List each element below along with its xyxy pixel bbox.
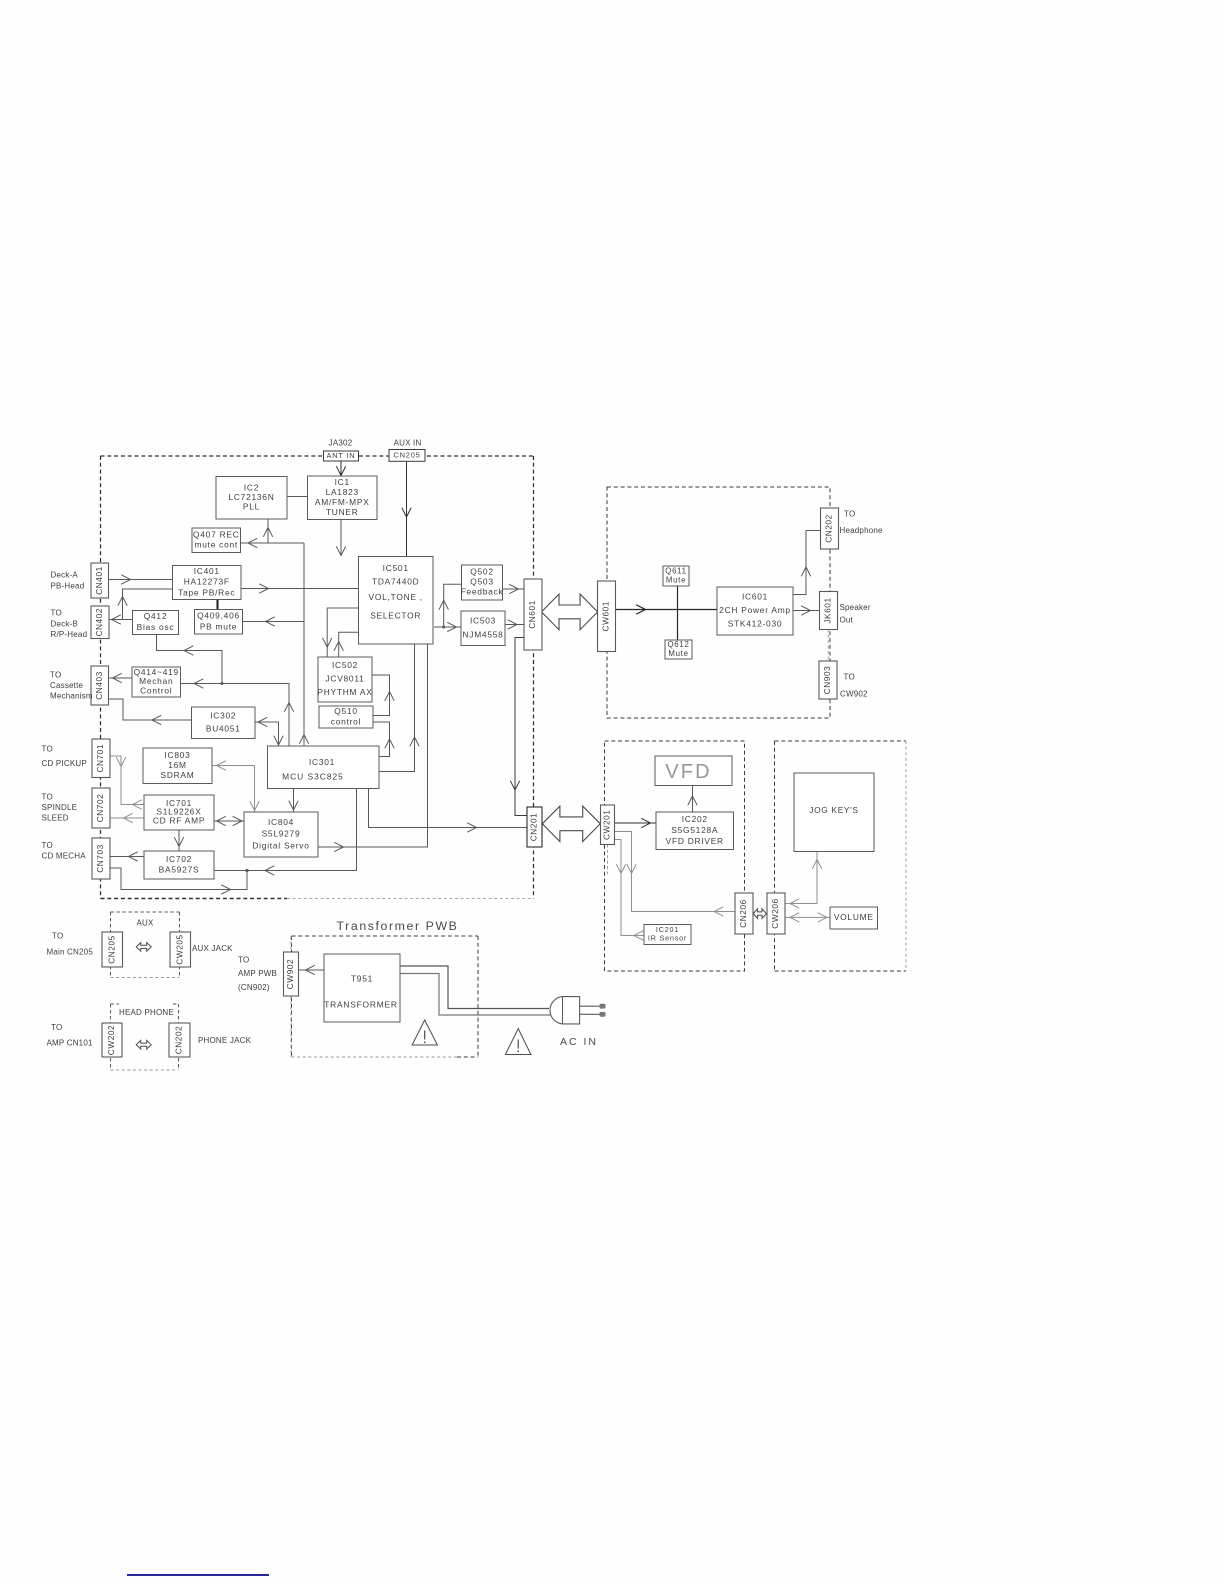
svg-text:IC804: IC804 — [268, 817, 294, 827]
wire IC601 to CN202 headphone — [793, 531, 821, 595]
svg-text:TO: TO — [50, 670, 61, 679]
wire IC502 to IC501 right stub — [339, 632, 359, 657]
connector CW205 aux jack — [170, 932, 191, 967]
svg-text:CN702: CN702 — [95, 794, 105, 823]
svg-text:STK412-030: STK412-030 — [728, 619, 783, 629]
svg-text:SLEED: SLEED — [42, 813, 69, 822]
JOG KEYS — [794, 773, 874, 852]
svg-text:CN402: CN402 — [94, 608, 104, 637]
svg-text:Mechanism: Mechanism — [50, 691, 93, 700]
svg-text:Q510: Q510 — [334, 706, 358, 716]
svg-text:CD RF AMP: CD RF AMP — [153, 816, 205, 826]
svg-text:S5G5128A: S5G5128A — [671, 825, 718, 835]
connector CW201 — [601, 805, 615, 845]
wire CW902 to T951 — [299, 969, 325, 971]
wire IC503 to CN601 — [505, 624, 524, 626]
wire CW201 to IC201 IR sensor — [615, 840, 645, 936]
svg-text:AUX: AUX — [137, 918, 155, 927]
svg-text:Q412: Q412 — [144, 611, 168, 621]
junction dot IC503 wire — [442, 626, 445, 629]
svg-text:IC2: IC2 — [244, 482, 259, 492]
svg-text:TO: TO — [42, 841, 53, 850]
wire IC302 to MCU — [255, 722, 279, 746]
svg-text:TO: TO — [844, 509, 855, 518]
svg-text:Mute: Mute — [668, 649, 688, 658]
connector CW902 — [284, 952, 299, 996]
VFD PWB dashed border — [605, 741, 745, 971]
svg-text:Speaker: Speaker — [840, 603, 871, 612]
svg-text:BU4051: BU4051 — [206, 724, 241, 734]
svg-text:CN403: CN403 — [94, 671, 104, 700]
Jog key PWB dashed border — [775, 740, 907, 742]
wire Q412 to mechan control node — [157, 635, 223, 684]
svg-text:(CN902): (CN902) — [238, 983, 270, 992]
svg-text:PHYTHM AX: PHYTHM AX — [317, 687, 372, 697]
wire branch up to IC2 — [267, 519, 269, 543]
IC301 MCU — [268, 746, 380, 789]
bus arrow CN201-CW201 — [542, 806, 600, 841]
connector CN206 — [735, 893, 753, 934]
svg-text:CN202: CN202 — [824, 514, 834, 543]
svg-text:Transformer PWB: Transformer PWB — [337, 919, 459, 933]
svg-text:NJM4558: NJM4558 — [462, 629, 503, 639]
Q502 Q503 feedback — [462, 565, 503, 600]
wire IC502 to Q510 control — [372, 675, 390, 716]
wire IC401 to bias junction — [123, 589, 173, 620]
connector CN205 aux jack — [102, 932, 123, 967]
warning triangle AC IN — [505, 1029, 531, 1055]
wire Q412 to CN402 — [109, 619, 133, 621]
wire IC401 to Q409 stub — [217, 600, 219, 610]
svg-text:JOG KEY'S: JOG KEY'S — [809, 805, 858, 815]
svg-text:SPINDLE: SPINDLE — [42, 803, 78, 812]
svg-text:TDA7440D: TDA7440D — [372, 577, 419, 587]
svg-text:Headphone: Headphone — [840, 526, 884, 535]
T951 transformer — [324, 954, 400, 1022]
wire Q502 to CN601 — [503, 588, 524, 590]
svg-text:CW902: CW902 — [840, 689, 868, 698]
svg-text:TO: TO — [52, 931, 63, 940]
wire volume to CW206 — [785, 916, 830, 918]
wire ANT IN to IC1 — [340, 461, 342, 476]
connector CN205 AUX IN — [389, 450, 425, 462]
wire CN702 to IC701 — [110, 817, 145, 819]
svg-text:CW201: CW201 — [602, 810, 612, 840]
wire AUX IN CN205 to IC501 — [406, 461, 408, 556]
Q414-419 mechan control — [132, 667, 181, 697]
wire IC701 to IC702 — [178, 830, 180, 851]
svg-text:TO: TO — [42, 744, 53, 753]
svg-text:Mute: Mute — [666, 576, 686, 585]
wire CN401 to IC401 — [109, 579, 173, 581]
wire CN403 to IC302 — [109, 699, 192, 720]
svg-text:Q409,406: Q409,406 — [197, 611, 240, 621]
wire branch to Q409 PB mute — [243, 621, 305, 623]
svg-text:Q612: Q612 — [667, 640, 689, 649]
svg-text:AMP CN101: AMP CN101 — [47, 1038, 93, 1047]
connector CW206 — [767, 893, 785, 934]
wire IC601 to JK601 speaker — [793, 610, 820, 612]
svg-text:AUX JACK: AUX JACK — [192, 944, 233, 953]
svg-text:AM/FM-MPX: AM/FM-MPX — [315, 497, 370, 507]
wire MCU control bus vertical to Q407/PB-mute — [303, 543, 305, 746]
connector stub below CW902 — [290, 996, 292, 1057]
connector CW202 phone — [102, 1023, 122, 1057]
connector CN903 — [819, 661, 837, 699]
IC202 VFD driver — [656, 812, 734, 850]
AUX dashed border — [111, 911, 180, 913]
svg-text:CN701: CN701 — [95, 744, 105, 773]
svg-text:R/P-Head: R/P-Head — [51, 630, 88, 639]
svg-text:Tape PB/Rec: Tape PB/Rec — [178, 587, 235, 597]
wire T951 to AC plug lower — [400, 974, 552, 1016]
wire branch up to Q502 feedback — [444, 584, 462, 627]
VOLUME — [830, 907, 878, 929]
IC502 rhythm — [318, 657, 372, 702]
svg-text:VOLUME: VOLUME — [834, 912, 874, 922]
svg-text:CN903: CN903 — [822, 666, 832, 695]
connector CN403 — [91, 666, 109, 705]
wire MCU to IC804 — [293, 789, 295, 813]
svg-text:TO: TO — [42, 792, 53, 801]
bus arrow CN205-CW205 aux — [136, 943, 151, 952]
svg-text:JK601: JK601 — [823, 597, 833, 623]
svg-text:IC503: IC503 — [470, 615, 496, 625]
wire MCU to IC702 — [214, 789, 357, 871]
wire T951 to AC plug upper — [400, 966, 549, 1009]
svg-text:IC702: IC702 — [166, 854, 192, 864]
IC804 digital servo — [244, 812, 318, 857]
svg-text:IR Sensor: IR Sensor — [648, 934, 687, 943]
wire CW601 to power amp — [616, 609, 718, 611]
svg-text:Q502: Q502 — [470, 567, 494, 577]
svg-text:CW205: CW205 — [174, 934, 184, 964]
svg-text:Q407 REC: Q407 REC — [193, 530, 240, 540]
svg-text:CW202: CW202 — [106, 1025, 116, 1055]
svg-text:Deck-B: Deck-B — [51, 619, 78, 628]
connector JA302 ANT IN — [324, 451, 359, 461]
connector stub above CW902 — [290, 936, 292, 952]
svg-text:Digital Servo: Digital Servo — [252, 840, 309, 850]
svg-text:IC202: IC202 — [682, 814, 708, 824]
svg-text:MCU S3C825: MCU S3C825 — [282, 772, 344, 782]
svg-text:TO: TO — [51, 1023, 62, 1032]
IC201 IR sensor — [644, 925, 691, 945]
svg-text:AC IN: AC IN — [560, 1036, 598, 1048]
connector CN202 amp — [821, 508, 839, 549]
wire CW201 to CN206 key scan — [615, 832, 736, 912]
junction dot IC702 line — [245, 869, 248, 872]
wire CN703 loop to junction — [110, 868, 247, 890]
warning triangle transformer — [412, 1020, 437, 1045]
svg-text:AMP PWB: AMP PWB — [238, 969, 277, 978]
Transformer PWB dashed border — [292, 935, 479, 937]
svg-text:SELECTOR: SELECTOR — [370, 611, 421, 621]
svg-text:TO: TO — [238, 955, 249, 964]
wire Q407 REC mute line — [241, 542, 305, 544]
Q612 mute — [665, 640, 692, 659]
connector CN202 phone — [169, 1023, 190, 1057]
svg-text:Control: Control — [140, 686, 172, 696]
svg-text:TO: TO — [844, 673, 855, 682]
IC701 CD RF amp — [144, 795, 214, 830]
IC2 PLL — [216, 477, 287, 520]
svg-text:BA5927S: BA5927S — [159, 864, 200, 874]
svg-text:VOL,TONE ,: VOL,TONE , — [369, 592, 423, 602]
svg-text:CN401: CN401 — [94, 566, 104, 595]
wire IC1 to IC501 selector — [340, 520, 342, 556]
svg-text:Q611: Q611 — [665, 567, 687, 576]
svg-text:Q503: Q503 — [470, 577, 494, 587]
svg-text:CN201: CN201 — [529, 813, 539, 842]
svg-text:Feedback: Feedback — [461, 587, 504, 597]
svg-text:mute cont: mute cont — [194, 539, 238, 549]
svg-text:JA302: JA302 — [329, 438, 353, 447]
svg-text:LC72136N: LC72136N — [228, 492, 274, 502]
svg-text:IC302: IC302 — [210, 710, 236, 720]
svg-text:S5L9279: S5L9279 — [262, 829, 301, 839]
connector CN703 — [92, 838, 110, 879]
AC plug prong upper — [580, 1005, 600, 1007]
wire MCU to CN201 — [369, 789, 528, 828]
connector CW601 — [598, 581, 616, 652]
Power Amp PWB dashed border — [607, 487, 830, 718]
svg-text:CD PICKUP: CD PICKUP — [42, 759, 87, 768]
svg-text:Main CN205: Main CN205 — [47, 947, 94, 956]
svg-text:IC1: IC1 — [335, 477, 350, 487]
connector JK601 — [820, 592, 838, 630]
wire jog keys to CW206 — [785, 852, 817, 904]
Q412 bias osc — [133, 611, 179, 635]
svg-text:ANT IN: ANT IN — [327, 451, 356, 460]
wire CW201 to IC202 — [615, 822, 657, 824]
connector stub below CW201 — [607, 845, 609, 875]
svg-text:16M: 16M — [168, 760, 187, 770]
footer blue rule — [127, 1574, 269, 1576]
connector CN601 — [524, 579, 542, 650]
Q409 406 PB mute — [195, 610, 243, 635]
svg-text:CN601: CN601 — [527, 600, 537, 629]
Q510 control — [319, 706, 373, 728]
svg-text:Out: Out — [840, 616, 854, 625]
IC302 BU4051 — [192, 707, 256, 739]
IC1 tuner — [308, 476, 378, 520]
svg-text:control: control — [331, 716, 361, 726]
svg-text:IC401: IC401 — [194, 566, 220, 576]
svg-text:CN206: CN206 — [738, 899, 748, 928]
wire CN601 down to CN201 — [515, 638, 527, 816]
wire IC202 to VFD — [692, 786, 694, 813]
junction dot Q412/mech — [221, 682, 224, 685]
svg-text:Cassette: Cassette — [50, 681, 84, 690]
svg-text:CN205: CN205 — [393, 450, 420, 459]
IC803 SDRAM — [143, 748, 212, 784]
wire IC803 to IC804 memory bus — [212, 766, 255, 813]
wire IC401 tape out to IC501 — [241, 588, 359, 590]
Q611 mute — [663, 566, 689, 586]
svg-text:T951: T951 — [351, 974, 373, 984]
svg-text:IC501: IC501 — [383, 563, 409, 573]
wire MCU to Q414 mechan control — [181, 684, 290, 747]
bus arrow CN601-CW601 — [542, 594, 598, 630]
svg-text:JCV8011: JCV8011 — [325, 674, 364, 684]
svg-text:HA12273F: HA12273F — [184, 577, 230, 587]
HEAD PHONE dashed border — [111, 1003, 120, 1005]
svg-text:CD MECHA: CD MECHA — [42, 851, 87, 860]
svg-text:IC803: IC803 — [164, 750, 190, 760]
svg-text:CW902: CW902 — [285, 959, 295, 989]
connector CN402 — [91, 606, 109, 639]
AC plug prong lower — [580, 1013, 600, 1015]
svg-text:CN202: CN202 — [174, 1026, 184, 1055]
VFD display — [655, 756, 732, 786]
wire IC501 to IC502 left stub — [327, 608, 358, 657]
bus arrow CW202-CN202 headphone — [136, 1040, 151, 1049]
svg-text:TRANSFORMER: TRANSFORMER — [324, 1000, 397, 1010]
svg-text:CW601: CW601 — [601, 601, 611, 631]
svg-text:HEAD PHONE: HEAD PHONE — [119, 1008, 174, 1017]
svg-text:TO: TO — [51, 609, 62, 618]
Main PWB dashed border — [100, 456, 102, 899]
wire IC804 CD signal to IC501 — [318, 644, 428, 847]
connector stub JK601 to CN903 — [827, 630, 829, 662]
wire CN701 to IC701 — [110, 756, 145, 805]
wire CN703 to IC702 — [110, 856, 144, 858]
svg-text:PLL: PLL — [243, 502, 260, 512]
svg-text:LA1823: LA1823 — [326, 487, 359, 497]
wire IC701 to IC804 bidirectional — [214, 820, 244, 822]
svg-text:PB-Head: PB-Head — [51, 581, 85, 590]
Q407 REC mute — [192, 528, 241, 553]
svg-text:TUNER: TUNER — [326, 507, 359, 517]
svg-text:PHONE JACK: PHONE JACK — [198, 1036, 252, 1045]
svg-text:Deck-A: Deck-A — [51, 571, 79, 580]
svg-text:Bias osc: Bias osc — [137, 622, 175, 632]
svg-text:VFD: VFD — [665, 761, 712, 783]
svg-text:AUX IN: AUX IN — [394, 438, 422, 447]
wire Q414 mechan control to CN403 — [109, 677, 133, 679]
connector CN702 — [92, 788, 110, 828]
IC601 power amp — [717, 587, 793, 635]
wire IC2 to IC1 — [287, 496, 308, 498]
AC plug — [550, 997, 580, 1024]
wire Q611 Q612 mute cross — [677, 587, 679, 640]
svg-text:CN205: CN205 — [106, 935, 116, 964]
wire MCU to IC501 volume bus — [380, 644, 415, 772]
connector CN701 — [92, 739, 110, 778]
bus arrow CN206-CW206 — [753, 909, 766, 919]
connector CN201 — [527, 807, 542, 847]
IC702 BA5927S — [144, 851, 214, 879]
IC401 tape amp — [173, 566, 242, 600]
connector CN401 — [91, 563, 109, 598]
wire Q510 to MCU — [373, 722, 390, 757]
svg-text:CN703: CN703 — [95, 844, 105, 873]
svg-text:IC301: IC301 — [309, 757, 335, 767]
IC503 NJM4558 — [461, 611, 505, 646]
svg-text:IC502: IC502 — [332, 660, 358, 670]
svg-text:IC601: IC601 — [742, 592, 768, 602]
svg-text:PB mute: PB mute — [200, 621, 237, 631]
IC501 selector — [359, 557, 434, 645]
svg-text:CW206: CW206 — [770, 898, 780, 928]
wire IC501 to IC503 — [434, 626, 461, 628]
svg-text:2CH Power Amp: 2CH Power Amp — [719, 605, 791, 615]
svg-text:VFD DRIVER: VFD DRIVER — [666, 836, 724, 846]
svg-text:SDRAM: SDRAM — [161, 770, 195, 780]
